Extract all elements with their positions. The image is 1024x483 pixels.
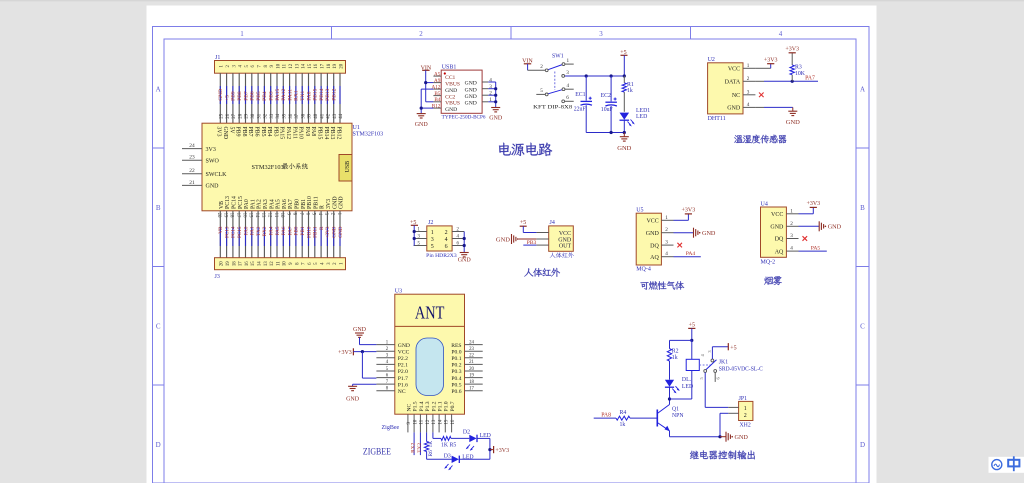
schematic sheet <box>147 6 877 483</box>
svg-text:+5: +5 <box>520 220 526 226</box>
svg-text:6: 6 <box>445 244 448 250</box>
svg-text:SWCLK: SWCLK <box>206 172 228 178</box>
svg-text:JP1: JP1 <box>739 396 747 402</box>
svg-text:PA11: PA11 <box>291 127 297 140</box>
svg-text:U1: U1 <box>353 125 360 131</box>
svg-text:10K: 10K <box>795 71 806 77</box>
svg-text:20: 20 <box>339 63 344 68</box>
capacitor EC1 22uF <box>574 76 592 133</box>
svg-text:P2.0: P2.0 <box>398 369 408 375</box>
ground at U5 <box>693 228 695 238</box>
svg-text:P2.2: P2.2 <box>398 356 408 362</box>
svg-text:VBUS: VBUS <box>445 81 460 87</box>
U3 left pin stubs 1-8 <box>376 340 394 391</box>
svg-text:GND: GND <box>332 226 338 237</box>
svg-text:PA12: PA12 <box>281 89 287 101</box>
svg-text:P0.3: P0.3 <box>451 369 461 375</box>
svg-text:+3V3: +3V3 <box>785 46 799 52</box>
resistor R4 1k <box>616 410 630 428</box>
svg-text:U4: U4 <box>761 201 768 207</box>
ground at U3 P1.6 <box>348 385 357 387</box>
svg-text:PB13: PB13 <box>329 127 335 140</box>
wire USB1 GND pins to ground <box>421 88 433 90</box>
svg-text:SWO: SWO <box>206 158 220 164</box>
svg-text:U2: U2 <box>708 57 715 63</box>
resistor R6 1K <box>424 432 434 456</box>
svg-text:A: A <box>156 86 161 94</box>
svg-text:C: C <box>156 323 161 331</box>
svg-text:MQ-2: MQ-2 <box>761 260 776 266</box>
svg-text:PB1: PB1 <box>301 199 307 209</box>
svg-text:P0.1: P0.1 <box>451 356 461 362</box>
svg-text:3V3: 3V3 <box>326 199 332 209</box>
svg-text:+5: +5 <box>224 95 230 101</box>
svg-text:14: 14 <box>258 261 263 266</box>
svg-text:GND: GND <box>445 107 457 113</box>
svg-text:B5: B5 <box>434 91 440 97</box>
svg-text:GND: GND <box>727 106 741 112</box>
U3 bottom pin names <box>406 401 456 411</box>
svg-text:39: 39 <box>308 113 313 118</box>
svg-text:2: 2 <box>419 30 423 38</box>
svg-text:21: 21 <box>189 180 195 186</box>
svg-text:32: 32 <box>264 113 269 118</box>
switch SW1 KFT DIP-8X8 <box>533 54 574 111</box>
svg-text:GND: GND <box>332 196 338 209</box>
junction collector <box>668 397 671 400</box>
power +3V3 at U4 <box>799 213 814 215</box>
junctions J2 left <box>413 230 416 233</box>
resistor R3 10K pullup <box>790 53 806 82</box>
svg-text:2: 2 <box>445 230 448 236</box>
svg-text:EC1: EC1 <box>575 92 585 98</box>
svg-text:1K R5: 1K R5 <box>441 443 456 449</box>
svg-text:PC15: PC15 <box>237 226 243 238</box>
svg-text:14: 14 <box>302 63 307 68</box>
svg-text:XH2: XH2 <box>740 423 751 429</box>
svg-text:PB15: PB15 <box>313 88 319 100</box>
svg-text:12: 12 <box>426 419 431 424</box>
svg-text:12: 12 <box>289 63 294 68</box>
svg-text:J3: J3 <box>215 274 220 280</box>
wire VIN to VBUS pins <box>425 70 427 102</box>
connector JP1 XH2 <box>739 396 753 429</box>
wire bottom rail power circuit <box>586 132 624 134</box>
wire U3 P1.5 RX2 <box>413 432 415 455</box>
svg-text:PA15: PA15 <box>275 89 281 101</box>
junctions top rail <box>585 74 588 77</box>
svg-text:SRD-05VDC-SL-C: SRD-05VDC-SL-C <box>719 366 763 372</box>
svg-text:+5: +5 <box>689 322 695 328</box>
svg-text:GND: GND <box>496 237 510 244</box>
svg-text:PB7: PB7 <box>243 91 249 101</box>
svg-text:23: 23 <box>469 347 474 352</box>
svg-text:PA9: PA9 <box>304 127 310 137</box>
svg-text:PB1: PB1 <box>300 226 306 235</box>
svg-text:USB: USB <box>345 161 351 173</box>
svg-text:VCC: VCC <box>646 219 658 225</box>
wire R2 to DL <box>669 361 671 380</box>
svg-text:PB5: PB5 <box>260 127 266 137</box>
svg-text:PB14: PB14 <box>319 88 325 100</box>
svg-text:STM32F103: STM32F103 <box>252 164 284 171</box>
svg-text:PB10: PB10 <box>306 226 312 238</box>
svg-text:LED1: LED1 <box>636 108 650 114</box>
transistor Q1 NPN <box>657 405 684 432</box>
wire U2 DATA to PA7 <box>755 80 764 82</box>
svg-text:A9: A9 <box>434 78 441 84</box>
ime logo <box>992 460 1002 470</box>
svg-text:22uF: 22uF <box>574 107 587 113</box>
sensor U5 MQ-4 combustible gas <box>636 213 661 265</box>
USB1 right pin stubs <box>482 77 492 103</box>
svg-text:10: 10 <box>283 261 288 266</box>
svg-text:PA5: PA5 <box>811 245 821 251</box>
svg-text:30: 30 <box>251 113 256 118</box>
wire +3V3 to U3 P1.7 <box>361 352 363 379</box>
svg-text:TX1: TX1 <box>300 90 306 100</box>
junction +3V3/P1.7 <box>361 350 364 353</box>
svg-text:2: 2 <box>665 227 668 233</box>
svg-text:17: 17 <box>239 261 244 266</box>
svg-text:5: 5 <box>540 88 543 94</box>
svg-text:PB3: PB3 <box>272 127 278 137</box>
wire relay common to +5 <box>711 347 713 359</box>
svg-text:1k: 1k <box>620 422 626 428</box>
svg-text:J1: J1 <box>215 55 220 61</box>
svg-text:R: R <box>319 226 325 230</box>
junction DATA/R3 <box>791 80 794 83</box>
svg-text:10: 10 <box>413 419 418 424</box>
svg-text:GND: GND <box>206 184 220 190</box>
U3 module body outline <box>416 338 444 396</box>
svg-text:PA4: PA4 <box>269 199 275 209</box>
svg-text:PB0: PB0 <box>294 226 300 235</box>
svg-text:PA0: PA0 <box>243 226 249 235</box>
svg-text:RX2: RX2 <box>262 226 268 236</box>
svg-text:B4: B4 <box>434 97 440 103</box>
svg-text:PA7: PA7 <box>288 199 294 209</box>
svg-text:43: 43 <box>333 113 338 118</box>
svg-text:PB8: PB8 <box>237 91 243 101</box>
svg-text:+3V3: +3V3 <box>806 201 820 207</box>
svg-text:KFT DIP-8X8: KFT DIP-8X8 <box>533 104 572 110</box>
svg-text:1k: 1k <box>672 355 678 361</box>
svg-text:P1.7: P1.7 <box>398 376 408 382</box>
svg-text:TX2: TX2 <box>417 443 423 453</box>
svg-text:37: 37 <box>295 113 300 118</box>
svg-text:24: 24 <box>469 340 474 345</box>
svg-text:PC14: PC14 <box>231 226 237 238</box>
resistor R5 1K <box>441 436 456 448</box>
wire D3 to +3V3 rail <box>459 458 490 460</box>
svg-text:NC: NC <box>406 403 412 411</box>
svg-text:3: 3 <box>665 240 668 246</box>
svg-text:R3: R3 <box>795 65 802 71</box>
svg-text:PB9: PB9 <box>231 91 237 101</box>
junction ground rail relay <box>718 435 721 438</box>
junctions shield bus <box>494 87 497 90</box>
ground at USB1 right <box>491 107 500 109</box>
svg-text:GND: GND <box>465 100 477 106</box>
U5 pin stubs <box>661 215 673 257</box>
svg-text:PC13: PC13 <box>224 226 230 238</box>
svg-text:13: 13 <box>432 419 437 424</box>
capacitor EC2 10uF <box>601 76 617 133</box>
relay JK1 SRD-05VDC-SL-C <box>686 350 763 382</box>
svg-text:41: 41 <box>320 113 325 118</box>
svg-text:+3V3: +3V3 <box>325 226 331 238</box>
svg-text:PB11: PB11 <box>313 196 319 209</box>
svg-text:PB9: PB9 <box>235 127 241 137</box>
svg-text:15: 15 <box>251 261 256 266</box>
svg-text:GND: GND <box>458 258 472 264</box>
svg-text:PB13: PB13 <box>325 88 331 100</box>
JP1 pin stubs <box>728 406 738 408</box>
svg-text:3V3: 3V3 <box>216 127 222 137</box>
svg-text:38: 38 <box>301 113 306 118</box>
svg-text:R6: R6 <box>428 450 434 457</box>
svg-text:+3V3: +3V3 <box>495 448 509 454</box>
svg-text:11: 11 <box>420 419 425 424</box>
svg-text:GND: GND <box>465 94 477 100</box>
svg-text:PB6: PB6 <box>250 91 256 101</box>
svg-text:P0.6: P0.6 <box>451 389 461 395</box>
svg-text:14: 14 <box>438 419 443 424</box>
wire SW1 pin3 to +5 rail <box>565 75 624 77</box>
svg-text:1: 1 <box>744 406 747 412</box>
svg-text:U3: U3 <box>395 289 402 295</box>
svg-text:GND: GND <box>465 87 477 93</box>
svg-text:GND: GND <box>346 396 360 402</box>
wire U4 GND to ground <box>799 225 820 227</box>
wire USB1 shield bus <box>488 82 495 108</box>
U1 bottom pin names <box>219 196 345 209</box>
svg-text:D: D <box>156 441 161 449</box>
module U3 ZigBee <box>395 294 465 414</box>
usb connector USB1 TYPEC-250D-BCP6 <box>441 70 482 113</box>
svg-text:PA0: PA0 <box>244 199 250 209</box>
wire PA8 to R4 <box>594 417 616 419</box>
svg-text:OUT: OUT <box>559 244 572 250</box>
U3 right pin names <box>451 343 461 395</box>
svg-text:1: 1 <box>747 63 750 69</box>
svg-text:12: 12 <box>270 261 275 266</box>
svg-text:42: 42 <box>327 113 332 118</box>
svg-text:PB12: PB12 <box>332 88 338 100</box>
led DL <box>665 377 693 393</box>
svg-text:PA3: PA3 <box>263 199 269 209</box>
junction B12/GND <box>420 107 423 110</box>
junctions bottom rail <box>610 131 613 134</box>
ground at U2 <box>792 107 794 111</box>
ground at J2 <box>460 252 469 254</box>
svg-text:28: 28 <box>238 113 243 118</box>
resistor R1 1k <box>622 76 634 112</box>
svg-text:P1.4: P1.4 <box>419 401 425 411</box>
svg-text:PB5: PB5 <box>256 91 262 101</box>
svg-text:3: 3 <box>599 30 603 38</box>
wire relay NO to JP1 pin1 <box>704 372 706 407</box>
input method bar <box>989 457 1024 473</box>
svg-text:+3V3: +3V3 <box>764 58 778 64</box>
ground at USB1 left <box>417 113 426 115</box>
svg-text:PB15: PB15 <box>317 127 323 140</box>
svg-text:ZigBee: ZigBee <box>382 425 400 431</box>
svg-text:26: 26 <box>226 113 231 118</box>
wire U3 P1.3 to R5 <box>432 432 434 438</box>
svg-text:44: 44 <box>339 113 344 118</box>
ground power circuit <box>623 133 625 137</box>
svg-text:MQ-4: MQ-4 <box>636 267 651 273</box>
svg-text:PC15: PC15 <box>238 196 244 209</box>
wire R6 to D3 <box>426 452 428 460</box>
power +3V3 at zigbee leds <box>490 449 494 451</box>
svg-text:PB6: PB6 <box>254 127 260 137</box>
wire +5 bus J2 <box>413 225 415 245</box>
svg-text:PB12: PB12 <box>335 127 341 140</box>
svg-text:PA12: PA12 <box>285 127 291 140</box>
title relay control output <box>690 451 699 460</box>
svg-text:16: 16 <box>245 261 250 266</box>
connector J3 20-pin header <box>215 258 346 270</box>
svg-text:NC: NC <box>732 93 740 99</box>
wire Q1 collector <box>669 399 671 405</box>
U1 USB sub-block <box>339 155 352 182</box>
svg-text:1: 1 <box>567 58 570 64</box>
svg-text:25: 25 <box>220 113 225 118</box>
wire U3 P1.4 TX2 <box>419 432 421 455</box>
svg-text:DL.: DL. <box>682 377 692 383</box>
wire DL to collector junction <box>669 387 671 399</box>
U1 top pin numbers 25-44 <box>220 113 345 118</box>
svg-text:PA15: PA15 <box>279 127 285 140</box>
svg-text:10: 10 <box>276 63 281 68</box>
svg-text:GND: GND <box>465 81 477 87</box>
svg-text:+5: +5 <box>730 345 736 351</box>
svg-text:15: 15 <box>445 419 450 424</box>
svg-text:LED: LED <box>636 114 647 120</box>
J4 pin stubs <box>536 233 548 246</box>
wire U4 AQ net PA5 <box>799 250 827 252</box>
svg-text:PA4: PA4 <box>269 226 275 235</box>
svg-text:A: A <box>860 86 865 94</box>
led D2 <box>463 429 491 450</box>
led D3 <box>444 453 474 470</box>
svg-text:JK1: JK1 <box>719 360 728 366</box>
svg-text:VBUS: VBUS <box>445 101 460 107</box>
wire J4 OUT net PB3 <box>523 244 536 246</box>
svg-text:ZIGBEE: ZIGBEE <box>363 446 391 456</box>
svg-text:GND: GND <box>415 122 429 128</box>
U3 ANT section divider <box>395 325 465 327</box>
power +3V3 at U2 VCC <box>755 67 770 69</box>
J2 left pin stubs <box>414 228 427 247</box>
ime chinese mode indicator <box>1008 456 1019 471</box>
svg-text:PB4: PB4 <box>262 91 268 101</box>
svg-text:3: 3 <box>431 237 434 243</box>
U1 left pins 24 3V3, 23 SWO, 22 SWCLK, 21 GND <box>182 143 227 190</box>
svg-text:DATA: DATA <box>725 80 741 86</box>
sheet inner border <box>164 39 856 483</box>
svg-text:AQ: AQ <box>650 255 659 261</box>
svg-text:4: 4 <box>665 251 668 257</box>
svg-text:Pin HDR2X3: Pin HDR2X3 <box>426 253 457 259</box>
svg-text:27: 27 <box>232 113 237 118</box>
svg-text:3: 3 <box>790 233 793 239</box>
junction +5/R2 <box>690 339 693 342</box>
svg-text:VB: VB <box>219 201 225 209</box>
svg-text:SW1: SW1 <box>552 54 564 60</box>
U1 top pin names <box>216 127 342 140</box>
net labels J3 bus <box>218 226 344 238</box>
svg-text:4: 4 <box>445 237 448 243</box>
wire +5 to R2 branch <box>670 339 692 341</box>
svg-text:PA7: PA7 <box>805 76 815 82</box>
svg-text:PA10: PA10 <box>298 127 304 140</box>
svg-text:CC2: CC2 <box>445 94 455 100</box>
svg-text:RES: RES <box>451 343 461 349</box>
svg-text:GND: GND <box>558 237 572 243</box>
sheet outer border <box>153 27 870 483</box>
svg-text:R4: R4 <box>620 410 627 416</box>
svg-text:VCC: VCC <box>398 349 410 355</box>
no connect U4 DQ <box>803 236 808 241</box>
svg-text:GND: GND <box>770 225 784 231</box>
ground at relay <box>720 436 726 438</box>
svg-text:4: 4 <box>779 30 783 38</box>
svg-text:PA7: PA7 <box>287 226 293 235</box>
svg-text:P1.0: P1.0 <box>444 401 450 411</box>
junction +3V3 rail zigbee <box>488 448 491 451</box>
led LED1 <box>620 108 651 133</box>
zone dividers left <box>153 147 165 149</box>
svg-text:ANT: ANT <box>415 303 445 323</box>
wire JP1 pin2 to ground rail <box>720 412 728 414</box>
wire bus J1 to U1 <box>220 73 340 123</box>
svg-text:2: 2 <box>747 76 750 82</box>
svg-text:P1.3: P1.3 <box>425 401 431 411</box>
svg-text:P1.1: P1.1 <box>438 401 444 411</box>
resistor R2 1k <box>667 349 678 362</box>
ground at U4 <box>818 221 820 231</box>
wire R4 to Q1 base <box>630 417 657 419</box>
svg-text:40: 40 <box>314 113 319 118</box>
svg-text:P2.1: P2.1 <box>398 363 408 369</box>
svg-text:5V: 5V <box>228 127 234 135</box>
power +5 at relay contact <box>727 343 729 350</box>
svg-text:31: 31 <box>257 113 262 118</box>
svg-text:PB14: PB14 <box>323 127 329 140</box>
svg-text:4: 4 <box>747 102 750 108</box>
svg-text:20: 20 <box>469 367 474 372</box>
svg-text:13: 13 <box>295 63 300 68</box>
svg-text:3V3: 3V3 <box>206 147 216 153</box>
svg-text:PB11: PB11 <box>313 226 319 238</box>
svg-text:GND: GND <box>339 196 345 209</box>
mcu U1 STM32F103 minimal system <box>202 123 352 211</box>
svg-text:PA1: PA1 <box>250 199 256 209</box>
svg-text:P0.5: P0.5 <box>451 382 461 388</box>
title smoke <box>764 277 773 285</box>
power +3V3 at U5 <box>674 219 689 221</box>
svg-text:R2: R2 <box>672 349 679 355</box>
svg-text:VCC: VCC <box>728 67 740 73</box>
J2 right pin stubs <box>452 228 464 247</box>
svg-text:Q1: Q1 <box>672 407 679 413</box>
svg-text:J4: J4 <box>550 220 555 226</box>
svg-text:18: 18 <box>232 261 237 266</box>
